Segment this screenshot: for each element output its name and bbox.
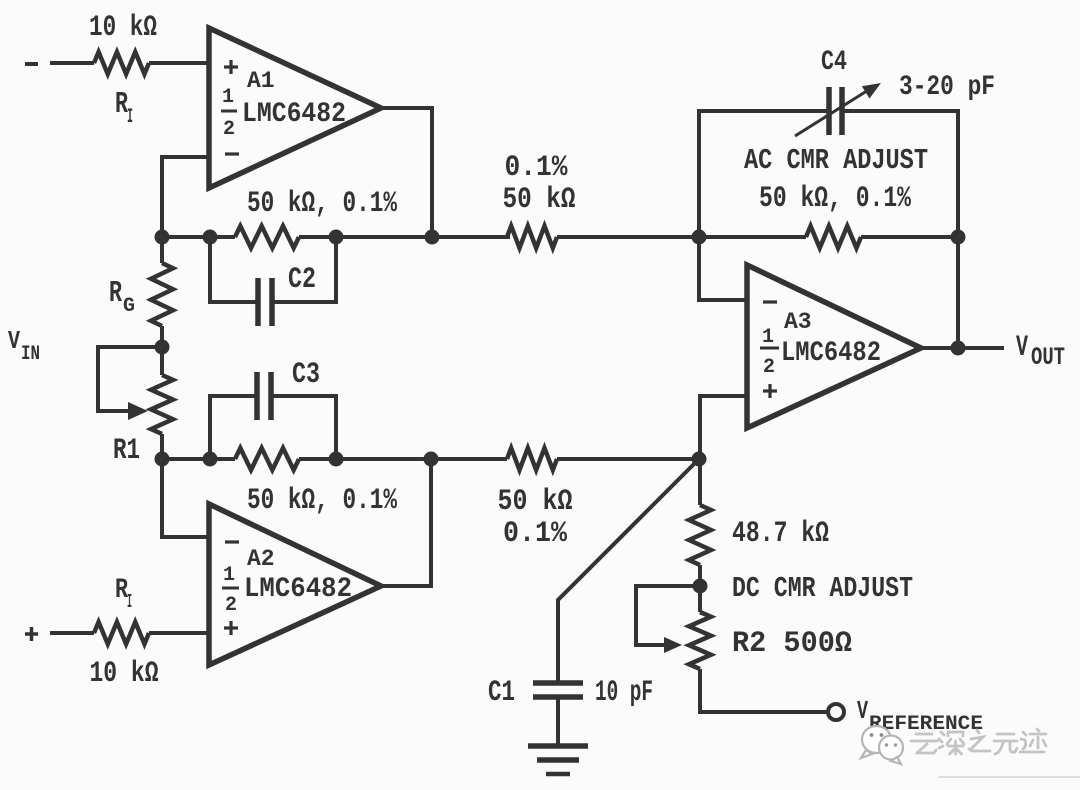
wire node row top left: [162, 235, 235, 239]
resistor 50k A3 feedback: [806, 226, 861, 248]
op-amp A2: [209, 504, 381, 665]
resistor 50k A2 feedback: [235, 448, 299, 470]
wire top middle to A3 node: [557, 235, 806, 239]
svg-text:V: V: [1016, 331, 1028, 365]
wire RG to VIN node: [160, 326, 164, 375]
resistor 50k bottom middle: [507, 448, 557, 470]
svg-text:LMC6482: LMC6482: [781, 338, 881, 369]
label C1: [488, 676, 515, 710]
label RI bottom: [115, 575, 132, 613]
svg-text:R1: R1: [113, 434, 140, 468]
label 50 kOhm, 0.1% (A1 fb): [247, 187, 398, 221]
wire A3 inverting input: [699, 237, 747, 300]
svg-text:V: V: [8, 326, 20, 356]
svg-text:R: R: [109, 276, 122, 311]
svg-text:C1: C1: [488, 676, 515, 710]
wire 48.7k to DC node: [698, 565, 702, 612]
resistor R2 potentiometer: [689, 612, 711, 669]
label R2 500 Ohm: [732, 627, 852, 661]
wire node row bottom left: [162, 457, 235, 461]
arrow C4 variable: [795, 83, 881, 136]
input terminal minus: [25, 62, 38, 66]
svg-text:1: 1: [222, 86, 234, 109]
input terminal plus: [25, 627, 38, 641]
label VREFERENCE: [857, 696, 983, 736]
svg-text:I: I: [127, 106, 133, 129]
label C2: [288, 263, 316, 297]
label RG: [109, 276, 135, 318]
svg-text:50 kΩ, 0.1%: 50 kΩ, 0.1%: [247, 187, 398, 221]
label 10 kOhm top: [89, 11, 157, 45]
wire VIN wiper bracket: [98, 347, 162, 411]
svg-text:3-20 pF: 3-20 pF: [899, 72, 995, 103]
wire feedback box top right: [842, 111, 958, 237]
svg-text:10 kΩ: 10 kΩ: [90, 657, 159, 691]
wire diagonal to C1: [558, 459, 699, 681]
svg-text:A2: A2: [247, 546, 275, 572]
resistor RI (top, 10 k): [94, 52, 149, 74]
svg-text:50 kΩ, 0.1%: 50 kΩ, 0.1%: [247, 484, 398, 518]
node at 336,459: [329, 452, 344, 467]
wire fb res to A1 out node: [299, 235, 510, 239]
resistor R1 potentiometer: [151, 375, 173, 434]
label 10 kOhm bottom: [90, 657, 159, 691]
label VOUT: [1016, 331, 1065, 372]
node at 336,237: [329, 230, 344, 245]
node at 210,459: [203, 452, 218, 467]
op-amp A3: [747, 265, 921, 428]
node at 699,459: [692, 452, 707, 467]
wire A1 output: [381, 108, 432, 237]
capacitor C3: [210, 372, 336, 459]
wire RI to A1 + input: [149, 61, 209, 65]
svg-text:2: 2: [225, 594, 237, 617]
label 50 kOhm bottom middle: [498, 485, 573, 519]
wire node to 48.7k: [698, 459, 702, 505]
wire RI to A2 + input: [149, 631, 209, 635]
node at 431,459: [424, 452, 439, 467]
svg-text:A3: A3: [784, 309, 812, 335]
svg-text:C4: C4: [821, 47, 847, 78]
label 3-20 pF: [899, 72, 995, 103]
label 50 kOhm, 0.1% (A2 fb): [247, 484, 398, 518]
resistor RG: [151, 263, 173, 326]
ground: [528, 746, 588, 774]
label 48.7 kOhm: [732, 517, 829, 551]
wire fb res to A2 out node: [299, 457, 507, 461]
svg-text:AC CMR ADJUST: AC CMR ADJUST: [744, 144, 928, 177]
capacitor C4 variable: [829, 87, 842, 135]
svg-text:V: V: [857, 696, 868, 726]
svg-text:G: G: [123, 295, 135, 318]
svg-text:OUT: OUT: [1031, 343, 1065, 372]
node at 958,348: [951, 341, 966, 356]
wire A3 output: [921, 346, 1004, 350]
watermark text yun shen zhi wu ji: [911, 729, 1046, 754]
svg-text:10 pF: 10 pF: [595, 676, 653, 710]
svg-text:LMC6482: LMC6482: [242, 99, 346, 130]
wire bottom middle to node: [557, 457, 699, 461]
svg-text:1: 1: [762, 326, 774, 349]
wire A3 non-inverting input: [700, 396, 747, 459]
svg-text:C3: C3: [292, 358, 320, 392]
capacitor C1: [533, 683, 583, 697]
wire A1 inverting input: [162, 157, 209, 263]
label AC CMR ADJUST: [744, 144, 928, 177]
svg-text:50 kΩ: 50 kΩ: [503, 183, 576, 217]
label 10 pF: [595, 676, 653, 710]
watermark wechat logo: [861, 726, 903, 764]
op-amp A1: [209, 28, 381, 188]
svg-text:LMC6482: LMC6482: [244, 574, 352, 605]
svg-text:48.7 kΩ: 48.7 kΩ: [732, 517, 829, 551]
capacitor C2: [210, 237, 336, 326]
svg-text:C2: C2: [288, 263, 316, 297]
node at 432,237: [425, 230, 440, 245]
wire R1 to bottom row: [160, 434, 164, 459]
svg-text:2: 2: [223, 118, 235, 141]
node at 958,237: [951, 230, 966, 245]
wire R2 wiper bracket: [636, 586, 700, 645]
terminal VREFERENCE circle: [828, 704, 844, 720]
svg-text:1: 1: [223, 564, 235, 587]
wire input+ to RI bottom: [50, 631, 94, 635]
svg-text:IN: IN: [21, 343, 40, 366]
resistor 50k A1 feedback: [235, 226, 299, 248]
watermark underline: [938, 776, 1080, 778]
label 50 kOhm, 0.1% (A3 fb): [759, 182, 912, 216]
label R1: [113, 434, 140, 468]
svg-text:0.1%: 0.1%: [503, 517, 568, 551]
wire spine to A2 inverting input: [162, 459, 209, 537]
svg-text:DC CMR ADJUST: DC CMR ADJUST: [732, 572, 913, 605]
arrow VIN wiper: [128, 402, 148, 420]
svg-text:2: 2: [763, 356, 775, 379]
svg-text:50 kΩ: 50 kΩ: [498, 485, 573, 519]
svg-text:I: I: [127, 591, 132, 613]
label RI top: [115, 87, 133, 129]
wire feedback right vertical: [956, 237, 960, 348]
wire A2 output: [381, 459, 431, 586]
svg-text:0.1%: 0.1%: [505, 151, 569, 185]
arrow R2 wiper: [664, 637, 682, 653]
node at 162,459: [155, 452, 170, 467]
wire R2 to VREF terminal: [700, 669, 827, 712]
label C3: [292, 358, 320, 392]
wire feedback box left vertical: [699, 111, 829, 237]
wire input- to RI: [50, 61, 94, 65]
resistor 48.7k: [689, 505, 711, 565]
label VIN: [8, 326, 40, 366]
resistor RI (bottom, 10 k): [94, 622, 149, 644]
node at 162,237: [155, 230, 170, 245]
label 50 kOhm top middle: [503, 183, 576, 217]
wire C1 to ground: [556, 697, 560, 744]
node VIN at 162,347: [155, 340, 170, 355]
svg-text:50 kΩ, 0.1%: 50 kΩ, 0.1%: [759, 182, 912, 216]
wire fb res to output node: [861, 235, 958, 239]
svg-text:10 kΩ: 10 kΩ: [89, 11, 157, 45]
node at 210,237: [203, 230, 218, 245]
resistor 50k top middle: [507, 226, 557, 248]
node at 700,586: [693, 579, 708, 594]
label DC CMR ADJUST: [732, 572, 913, 605]
label C4: [821, 47, 847, 78]
node at 699,237: [692, 230, 707, 245]
svg-text:A1: A1: [247, 68, 275, 94]
svg-text:R2 500Ω: R2 500Ω: [732, 627, 852, 661]
label 0.1% top middle: [505, 151, 569, 185]
label 0.1% bottom middle: [503, 517, 568, 551]
